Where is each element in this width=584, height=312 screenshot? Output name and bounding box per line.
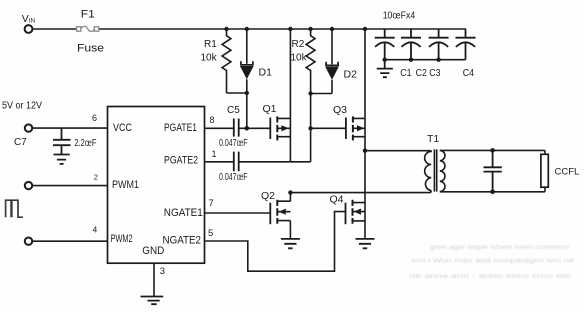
svg-text:Q3: Q3 bbox=[333, 104, 347, 116]
svg-text:1: 1 bbox=[212, 149, 217, 159]
wire secondary top bbox=[440, 149, 545, 151]
node R2/D2 junction bbox=[308, 91, 312, 95]
capacitor 0.047uF pin1 bbox=[234, 152, 239, 172]
svg-text:4: 4 bbox=[93, 225, 98, 235]
svg-text:10k: 10k bbox=[201, 53, 218, 64]
wire R1-D1 junction to pin8 net bbox=[227, 93, 247, 128]
node top rail junction Q3 drain line bbox=[363, 27, 367, 31]
capacitor C4 bbox=[456, 29, 476, 60]
terminal PWM2 input bbox=[25, 238, 32, 245]
ground Q4 bbox=[356, 239, 375, 248]
wire primary bottom net bbox=[290, 191, 431, 193]
svg-text:5V or 12V: 5V or 12V bbox=[2, 101, 42, 112]
svg-text:R2: R2 bbox=[292, 39, 305, 50]
svg-text:3: 3 bbox=[160, 266, 165, 277]
ground IC bbox=[141, 297, 164, 305]
wire PWM1 bbox=[32, 185, 108, 187]
node top rail junction R2 bbox=[308, 27, 312, 31]
diode D2 bbox=[325, 29, 339, 94]
wire R2-D2 junction down to PGATE2 net bbox=[311, 94, 332, 162]
svg-text:NGATE2: NGATE2 bbox=[163, 234, 202, 246]
svg-text:Fuse: Fuse bbox=[77, 42, 104, 54]
IC U1 box bbox=[108, 107, 205, 264]
wire Q3 drain-source line / Q4 drain line bbox=[364, 29, 366, 221]
svg-text:ne anne ann - anno enco crno e: ne anne ann - anno enco crno em bbox=[409, 273, 571, 280]
svg-text:C4: C4 bbox=[463, 67, 474, 79]
ground Q2 bbox=[281, 239, 300, 248]
svg-text:VCC: VCC bbox=[113, 122, 132, 134]
svg-text:VIN: VIN bbox=[22, 13, 35, 25]
capacitor C3 bbox=[429, 29, 449, 60]
svg-text:Q1: Q1 bbox=[263, 103, 277, 115]
svg-text:7: 7 bbox=[209, 198, 214, 209]
transformer T1 secondary winding bbox=[440, 150, 445, 191]
svg-text:CCFL: CCFL bbox=[555, 167, 580, 178]
svg-text:C1: C1 bbox=[400, 67, 411, 79]
node top rail junction Q1 drain line bbox=[288, 27, 292, 31]
diode D1 bbox=[240, 29, 254, 93]
svg-text:PGATE1: PGATE1 bbox=[164, 122, 197, 134]
svg-text:T1: T1 bbox=[427, 133, 439, 145]
svg-text:0.047œF: 0.047œF bbox=[219, 172, 248, 183]
svg-text:C3: C3 bbox=[429, 67, 440, 79]
wire pin1 cap to R2 net riser bbox=[239, 161, 311, 163]
ground cap bank bbox=[377, 60, 393, 77]
svg-text:PGATE2: PGATE2 bbox=[164, 154, 198, 166]
transistor Q4 bbox=[346, 200, 366, 224]
wire PGATE2 pin 1 bbox=[205, 161, 234, 163]
svg-text:emi i Wun marr and comparagen: emi i Wun marr and comparagen wru ne bbox=[411, 257, 575, 264]
svg-text:PWM1: PWM1 bbox=[112, 179, 139, 191]
node secondary cap bottom bbox=[490, 190, 495, 195]
node bus C2 bbox=[409, 58, 413, 62]
terminal PWM1 input bbox=[25, 182, 32, 189]
svg-text:C7: C7 bbox=[14, 137, 27, 148]
svg-text:NGATE1: NGATE1 bbox=[164, 207, 203, 219]
wire PWM2 bbox=[32, 240, 108, 242]
svg-text:D1: D1 bbox=[259, 67, 273, 79]
terminal 5V input bbox=[25, 124, 32, 131]
wire secondary bottom bbox=[440, 191, 545, 193]
svg-text:0.047œF: 0.047œF bbox=[219, 138, 248, 149]
resistor R2 bbox=[306, 29, 315, 94]
svg-text:6: 6 bbox=[92, 113, 97, 123]
svg-text:2.2œF: 2.2œF bbox=[74, 138, 96, 149]
wire IC GND stem bbox=[153, 263, 155, 296]
svg-text:10œFx4: 10œFx4 bbox=[383, 10, 416, 22]
capacitor ballast bbox=[484, 150, 502, 191]
wire top rail bbox=[32, 28, 466, 30]
capacitor C5 bbox=[234, 119, 239, 137]
node C5/D1 junction bbox=[245, 126, 250, 131]
wire Q4 source to ground bbox=[364, 221, 366, 239]
transistor Q1 bbox=[270, 116, 290, 140]
wire Q2 source to ground bbox=[289, 221, 291, 239]
svg-text:D2: D2 bbox=[344, 69, 358, 81]
capacitor C2 bbox=[401, 29, 421, 60]
wire Q2 drain up to primary-bottom net bbox=[289, 193, 291, 202]
svg-text:5: 5 bbox=[208, 228, 213, 239]
wire Q3 gate bbox=[311, 127, 346, 129]
svg-text:10k: 10k bbox=[291, 53, 308, 64]
capacitor C1 bbox=[375, 29, 395, 60]
node Q3 gate tap bbox=[308, 126, 312, 130]
svg-text:C5: C5 bbox=[227, 105, 240, 116]
wire PGATE1 pin 8 bbox=[205, 127, 234, 129]
lamp CCFL bbox=[544, 150, 546, 191]
ground C7 bbox=[54, 155, 70, 164]
wire C5 to Q1 gate bbox=[239, 127, 270, 129]
node R1/D1 junction bbox=[245, 91, 249, 95]
capacitor C7 bbox=[53, 128, 71, 154]
transistor Q3 bbox=[346, 116, 365, 140]
transformer T1 core bbox=[434, 149, 436, 191]
wire NGATE1 pin 7 bbox=[205, 212, 271, 214]
svg-text:PWM2: PWM2 bbox=[111, 233, 133, 245]
wire Q1 drain/source bus bbox=[289, 29, 291, 162]
svg-text:2: 2 bbox=[94, 173, 98, 182]
svg-text:Q2: Q2 bbox=[261, 190, 275, 202]
svg-text:8: 8 bbox=[210, 115, 215, 125]
resistor R1 bbox=[222, 29, 231, 93]
wire NGATE2 pin 5 routing bbox=[205, 212, 346, 272]
node top rail junction R1 bbox=[224, 27, 228, 31]
node Q3 source / transformer primary top bbox=[363, 149, 367, 153]
svg-text:Q4: Q4 bbox=[330, 193, 344, 205]
fuse F1 bbox=[77, 26, 99, 31]
wire cap bank bottom bus bbox=[385, 59, 466, 61]
watermark faint text bbox=[409, 244, 575, 280]
svg-text:gree agal segar where even cos: gree agal segar where even cosmeno bbox=[430, 244, 569, 251]
svg-text:R1: R1 bbox=[204, 39, 217, 50]
svg-text:C2: C2 bbox=[416, 67, 427, 79]
node bus C1 bbox=[383, 58, 387, 62]
svg-text:GND: GND bbox=[142, 245, 164, 257]
node Q2 drain bbox=[288, 190, 292, 194]
node bus C3 bbox=[436, 58, 440, 62]
wire VCC bbox=[32, 127, 108, 129]
transformer T1 primary winding bbox=[365, 151, 431, 191]
svg-text:F1: F1 bbox=[81, 9, 95, 21]
terminal Vin bbox=[25, 25, 33, 33]
node top rail junction D2 bbox=[330, 27, 334, 31]
transistor Q2 bbox=[270, 200, 290, 224]
node secondary cap top bbox=[490, 148, 495, 153]
node top rail junction D1 bbox=[245, 27, 249, 31]
square wave symbol bbox=[6, 200, 23, 217]
